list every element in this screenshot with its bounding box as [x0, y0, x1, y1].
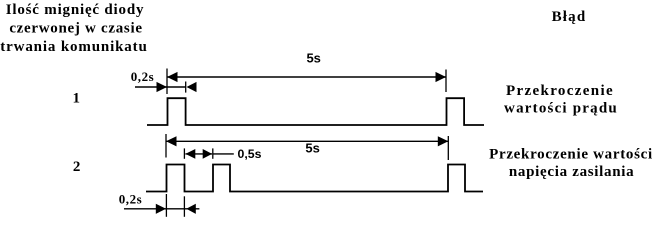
svg-text:1: 1: [72, 91, 80, 107]
svg-text:5s: 5s: [305, 141, 319, 156]
svg-text:wartości prądu: wartości prądu: [504, 100, 618, 116]
leader line to 0,5s label (row 2): [213, 153, 234, 155]
svg-text:5s: 5s: [306, 51, 320, 66]
dimension 0,5s double arrow (row 2): [185, 149, 212, 159]
column header: Ilość mignięć diody czerwonej w czasie trwania komunikatu: [0, 2, 147, 55]
svg-text:Przekroczenie wartości: Przekroczenie wartości: [489, 147, 653, 163]
extension line at first pulse rising edge (row 2): [165, 134, 167, 158]
error text row 2: Przekroczenie wartości napięcia zasilania: [489, 147, 653, 181]
svg-text:Ilość mignięć diody: Ilość mignięć diody: [6, 2, 145, 18]
error text row 1: Przekroczenie wartości prądu: [504, 83, 618, 116]
extension line below first pulse falling edge (row 2): [183, 196, 185, 217]
tick right of 0,5s gap (row 2): [212, 148, 214, 158]
tick at first pulse falling edge (row 1): [185, 82, 187, 93]
svg-text:Przekroczenie: Przekroczenie: [506, 83, 614, 99]
extension line at second pulse rising edge (row 1): [445, 70, 447, 93]
dimension line 5s (row 1): [167, 72, 446, 82]
svg-text:0,2s: 0,2s: [131, 69, 155, 84]
tick left of 0,5s gap (row 2): [183, 148, 185, 158]
extension line below first pulse rising edge (row 2): [165, 194, 167, 217]
extension line at first pulse rising edge (row 1): [166, 69, 168, 95]
waveform row 1: two 0.2s pulses 5s apart: [147, 98, 484, 125]
svg-text:Błąd: Błąd: [552, 9, 587, 25]
svg-text:2: 2: [73, 159, 81, 175]
svg-text:napięcia zasilania: napięcia zasilania: [509, 164, 635, 180]
dimension 0,2s with inward arrows (row 2): [124, 204, 199, 214]
svg-text:0,5s: 0,5s: [238, 147, 262, 161]
svg-text:czerwonej w czasie: czerwonej w czasie: [9, 21, 142, 37]
svg-text:0,2s: 0,2s: [119, 192, 143, 207]
dimension 0,2s leader with inward arrows (row 1): [135, 82, 197, 92]
extension line at last pulse rising edge (row 2): [447, 136, 449, 160]
dimension line 5s (row 2): [166, 136, 448, 146]
waveform row 2: two 0.2s pulses 0.5s apart then one 5s later: [146, 165, 483, 192]
svg-text:trwania komunikatu: trwania komunikatu: [0, 39, 147, 55]
